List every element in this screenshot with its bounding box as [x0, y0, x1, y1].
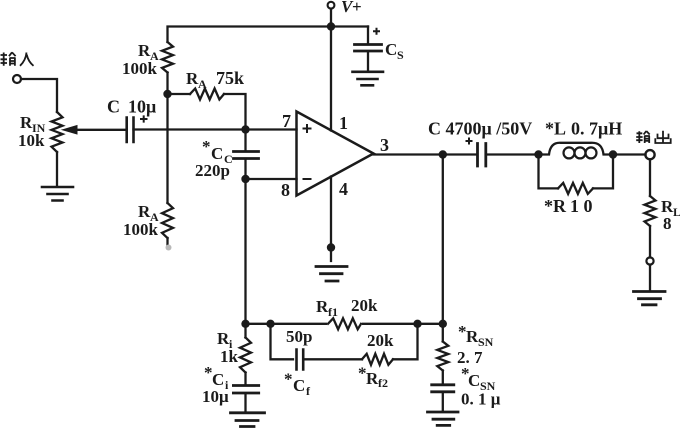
node L2 junction: [609, 150, 617, 158]
svg-text:4: 4: [339, 179, 348, 199]
resistor R_f2 20k: [362, 354, 393, 365]
wire node B down to feedback: [244, 179, 246, 324]
ground (C_SN): [428, 412, 459, 425]
capacitor C_C 220p: [244, 130, 246, 152]
wire pot to ground: [56, 152, 58, 187]
node B junction: [241, 175, 249, 183]
node L1 junction: [534, 150, 542, 158]
ground (op-amp pin4): [316, 267, 347, 282]
svg-text:*: *: [202, 137, 211, 156]
wire divider down: [166, 94, 168, 203]
svg-text:1: 1: [339, 113, 348, 133]
wire to R_L: [649, 159, 651, 196]
svg-text:C: C: [468, 371, 480, 390]
capacitor C 4700u/50V: [478, 144, 486, 167]
feedback vertical wire: [442, 155, 444, 342]
inductor L: [539, 143, 614, 155]
svg-text:100k: 100k: [123, 220, 159, 239]
resistor R_SN 2.7: [437, 342, 448, 371]
svg-text:+: +: [352, 0, 362, 16]
svg-text:*R: *R: [544, 196, 567, 216]
wiper arrow of R_IN: [75, 129, 126, 131]
resistor R_IN 10k (potentiometer): [52, 112, 63, 152]
feedback horizontal wire: [246, 323, 443, 325]
ground (C_i): [231, 413, 265, 427]
svg-text:50p: 50p: [286, 327, 312, 346]
svg-text:0. 1 μ: 0. 1 μ: [461, 390, 501, 409]
svg-text:20k: 20k: [367, 331, 394, 350]
svg-text:1 0: 1 0: [570, 196, 593, 216]
top rail wire: [168, 27, 369, 43]
lower feedback branch: 50p + R_f2: [271, 324, 294, 360]
svg-text:f1: f1: [328, 305, 338, 319]
svg-text:f2: f2: [378, 376, 388, 390]
resistor R_i 1k: [244, 324, 246, 338]
capacitor C_S: [367, 27, 369, 45]
wire C to node A: [134, 128, 246, 130]
V+ terminal: [328, 2, 335, 9]
output terminal 输出: [645, 150, 654, 159]
plus sign C 4700: [466, 138, 473, 145]
svg-text:S: S: [397, 48, 404, 62]
wire node A to pin7: [246, 128, 297, 130]
svg-text:*L: *L: [545, 119, 566, 139]
svg-text:10k: 10k: [18, 131, 45, 150]
svg-text:C: C: [293, 376, 305, 395]
ground (C_S): [353, 72, 384, 86]
resistor *R 10 parallel: [539, 155, 559, 189]
resistor R_A 100k bottom: [162, 203, 173, 238]
svg-text:10μ: 10μ: [202, 387, 229, 406]
svg-text:C 4700μ /50V: C 4700μ /50V: [428, 119, 532, 139]
capacitor *C_i 10u: [233, 386, 258, 394]
capacitor C_f 50p: [297, 350, 304, 370]
svg-text:75k: 75k: [216, 68, 244, 88]
svg-text:C: C: [385, 40, 397, 59]
svg-text:0. 7μH: 0. 7μH: [571, 119, 622, 139]
capacitor *C_SN 0.1u: [432, 385, 454, 392]
ground (input): [42, 187, 73, 201]
resistor R_A 100k top: [162, 42, 173, 73]
svg-text:8: 8: [281, 180, 290, 200]
capacitor C 10u: [127, 118, 134, 143]
pin 4 wire to ground: [330, 177, 332, 262]
svg-text:100k: 100k: [122, 59, 158, 78]
输入 (input) glyphs: [1, 52, 34, 66]
svg-text:SN: SN: [478, 335, 494, 349]
ground (R_L): [634, 292, 666, 305]
op-amp U1: [297, 112, 374, 196]
resistor R_f1 20k: [327, 317, 362, 330]
plus sign C_S: [373, 28, 380, 35]
plus sign C 10u: [140, 28, 473, 145]
pin 1 wire (V+): [330, 27, 332, 131]
node out junction: [439, 150, 447, 158]
svg-text:7: 7: [282, 111, 291, 131]
resistor R_L 8: [645, 196, 656, 226]
svg-text:20k: 20k: [351, 296, 378, 315]
connector circle: [646, 257, 653, 264]
svg-text:10μ: 10μ: [128, 97, 156, 117]
node A junction: [241, 125, 249, 133]
svg-text:A: A: [198, 77, 207, 91]
svg-text:C: C: [107, 97, 120, 117]
node divider junction: [163, 90, 171, 98]
output wire pin3: [374, 153, 478, 155]
wire node B to pin8: [246, 178, 297, 180]
wire R_L to connector: [649, 226, 651, 258]
svg-text:L: L: [673, 205, 680, 219]
svg-text:1k: 1k: [220, 347, 239, 366]
resistor R_A 75k: [168, 93, 191, 95]
node F junction: [439, 320, 447, 328]
svg-text:*: *: [284, 370, 293, 389]
svg-text:8: 8: [663, 214, 672, 233]
输出 (output) glyphs: [636, 131, 671, 143]
svg-text:220p: 220p: [195, 161, 230, 180]
svg-text:3: 3: [380, 135, 389, 155]
wire input to pot: [21, 79, 57, 112]
input terminal 输入: [13, 75, 21, 83]
